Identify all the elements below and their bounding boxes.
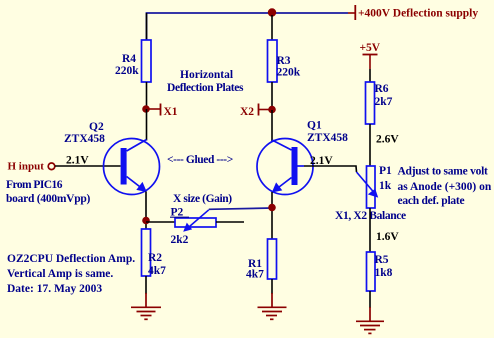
wire Q1 base [298, 165, 305, 167]
wire R2 to ground [145, 276, 147, 294]
svg-text:R2: R2 [148, 252, 162, 264]
svg-text:Date: 17. May 2003: Date: 17. May 2003 [7, 283, 102, 295]
wire P1 bottom to R5 [369, 208, 371, 252]
wire node to P2 [146, 221, 175, 223]
svg-text:1k: 1k [379, 180, 392, 192]
svg-text:as Anode (+300) on: as Anode (+300) on [398, 181, 492, 193]
svg-text:<--- Glued --->: <--- Glued ---> [167, 154, 233, 166]
svg-text:Deflection Plates: Deflection Plates [167, 82, 244, 94]
note Adjust block [398, 166, 492, 208]
svg-text:OZ2CPU Deflection Amp.: OZ2CPU Deflection Amp. [7, 253, 135, 265]
potentiometer P1 [357, 165, 393, 208]
svg-text:R4: R4 [122, 53, 136, 65]
svg-text:220k: 220k [277, 67, 301, 79]
svg-text:220k: 220k [115, 65, 139, 77]
wire +5V to R6 [369, 69, 371, 82]
wire P2 wiper to Q1 emitter node [209, 208, 272, 209]
svg-text:R3: R3 [277, 55, 291, 67]
port H input [8, 161, 55, 173]
svg-text:X size (Gain): X size (Gain) [173, 193, 232, 205]
terminal tick +400V [354, 5, 356, 20]
svg-text:2k7: 2k7 [375, 96, 393, 108]
node X2 tick [240, 104, 270, 119]
wire R5 to ground [369, 291, 371, 308]
wire P2 right stub [216, 221, 244, 223]
svg-text:X2: X2 [240, 106, 254, 118]
svg-text:1.6V: 1.6V [376, 231, 399, 243]
svg-text:From PIC16: From PIC16 [6, 179, 63, 191]
svg-text:H input: H input [8, 161, 45, 173]
svg-text:4k7: 4k7 [148, 265, 166, 277]
wire rail to R4 [146, 13, 148, 40]
wire R1 to ground [271, 279, 273, 294]
junction Q1 emitter node [268, 204, 276, 212]
svg-text:1k8: 1k8 [375, 267, 393, 279]
svg-text:Q1: Q1 [307, 120, 322, 132]
ground under R5 [356, 307, 384, 333]
resistor R4 [115, 40, 151, 82]
svg-text:ZTX458: ZTX458 [64, 133, 105, 145]
svg-text:+5V: +5V [360, 42, 381, 54]
svg-text:X1: X1 [164, 106, 178, 118]
transistor Q1 ZTX458 [257, 120, 348, 195]
svg-text:Vertical Amp is same.: Vertical Amp is same. [7, 268, 113, 280]
resistor R3 [268, 40, 301, 82]
wire R4 bottom to node X1 [146, 82, 148, 108]
svg-text:ZTX458: ZTX458 [307, 132, 348, 144]
label Horizontal Deflection Plates [167, 69, 244, 94]
wire Q2 emitter down [145, 192, 147, 230]
transistor Q2 ZTX458 [64, 121, 160, 195]
wire rail to R3 [271, 15, 273, 40]
junction on rail above R3 [268, 8, 276, 16]
wire Q1 emitter down [271, 192, 273, 239]
svg-text:each def. plate: each def. plate [398, 195, 465, 207]
wire H input to Q2 base [55, 165, 121, 167]
resistor R1 [246, 239, 277, 281]
svg-text:P1: P1 [379, 165, 392, 177]
resistor R5 [367, 252, 393, 291]
ground under R2 [131, 293, 161, 319]
svg-text:2.6V: 2.6V [376, 134, 399, 146]
resistor R2 [142, 229, 167, 277]
svg-text:board (400mVpp): board (400mVpp) [6, 193, 91, 205]
wire R6 to P1 [369, 124, 371, 166]
wire top supply rail [147, 13, 349, 40]
node X2 junction dot [268, 106, 276, 114]
wire X1 to Q2 collector [146, 109, 148, 141]
svg-text:Horizontal: Horizontal [180, 69, 233, 81]
label From PIC16 board [6, 179, 91, 205]
svg-text:Q2: Q2 [89, 121, 104, 133]
svg-text:R6: R6 [375, 83, 389, 95]
potentiometer P2 [170, 207, 216, 247]
junction Q2 emitter node [142, 217, 150, 225]
wire rail lead to +400V terminal [348, 12, 355, 14]
node X1 tick [148, 104, 178, 119]
svg-text:Adjust to same volt: Adjust to same volt [398, 166, 489, 178]
svg-text:2.1V: 2.1V [310, 155, 333, 167]
power +5V [360, 42, 381, 69]
node X1 junction dot [142, 105, 150, 113]
svg-text:+400V Deflection supply: +400V Deflection supply [358, 8, 478, 20]
resistor R6 [366, 82, 393, 124]
note OZ2CPU block [7, 253, 135, 295]
svg-text:R5: R5 [375, 254, 389, 266]
wire R3 bottom to node X2 [271, 82, 273, 108]
wire X2 to Q1 collector [271, 110, 273, 141]
svg-text:2k2: 2k2 [171, 234, 189, 246]
svg-text:4k7: 4k7 [246, 269, 264, 281]
svg-text:2.1V: 2.1V [66, 155, 89, 167]
ground under R1 [258, 293, 287, 319]
